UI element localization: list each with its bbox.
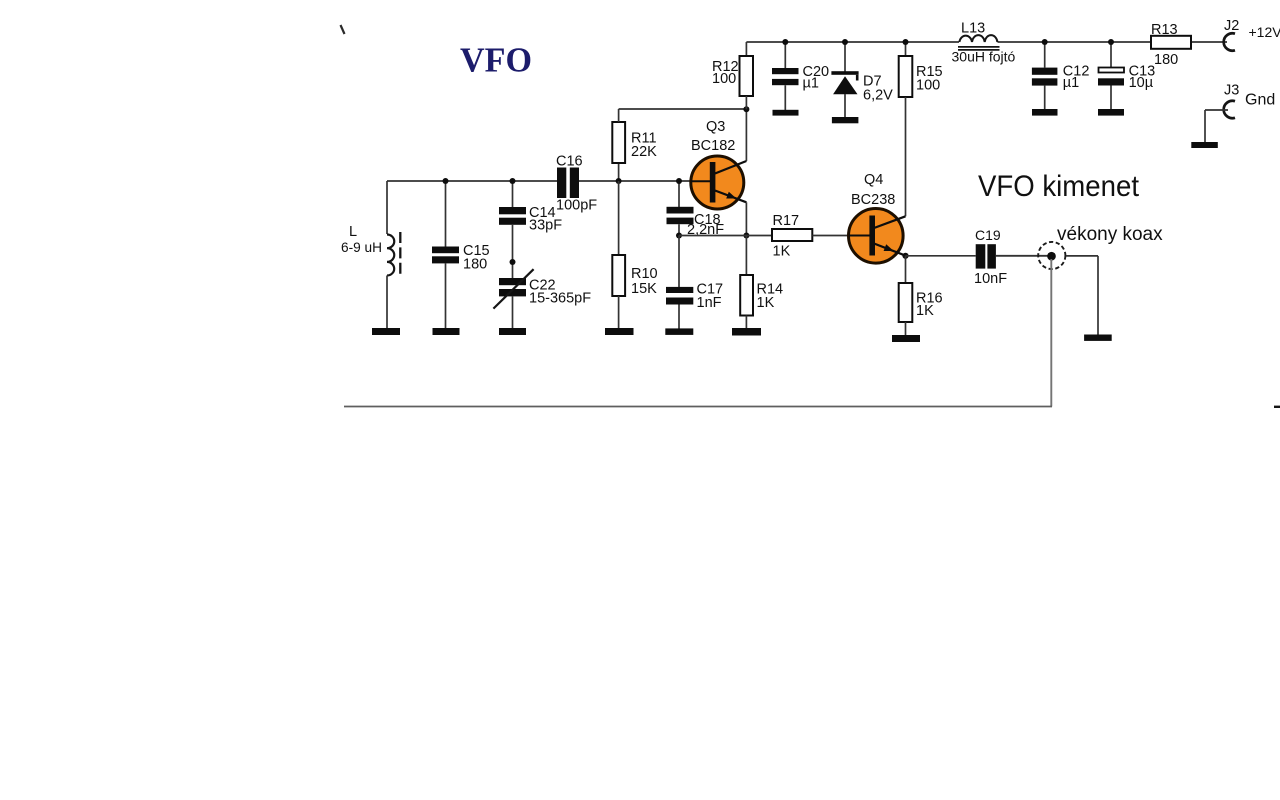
transistor Q3 [691, 156, 747, 209]
inductor L [387, 181, 400, 328]
wire Q3 emitter down [745, 202, 747, 235]
svg-text:Q4: Q4 [864, 172, 883, 188]
wire feedback bottom run [344, 406, 1052, 408]
svg-text:15-365pF: 15-365pF [529, 291, 591, 307]
svg-text:BC182: BC182 [691, 138, 735, 154]
label J2 [1224, 18, 1239, 34]
label C20 [803, 64, 830, 92]
connector J3 [1205, 101, 1235, 142]
svg-text:10µ: 10µ [1129, 75, 1154, 91]
node dot C14/rail [510, 178, 516, 184]
ground L [372, 328, 400, 335]
svg-text:µ1: µ1 [803, 76, 819, 92]
wire R11 top to R12 bottom [619, 108, 747, 110]
node dot collector / R12 [743, 106, 749, 112]
node dot rail / C20 [782, 39, 788, 45]
ground R16 [892, 335, 920, 342]
svg-text:R10: R10 [631, 266, 658, 282]
ground D7 [832, 117, 859, 123]
ground R14 [732, 328, 761, 336]
ground C20 [773, 110, 799, 116]
label C17 [697, 282, 724, 312]
svg-text:C16: C16 [556, 154, 583, 170]
svg-text:33pF: 33pF [529, 218, 562, 234]
label R15 [916, 64, 943, 94]
resistor R12 [740, 42, 754, 109]
label C16 [556, 154, 597, 214]
resistor R17 [772, 229, 849, 241]
svg-text:VFO: VFO [460, 40, 532, 79]
label J3 [1224, 83, 1239, 99]
node dot rail / R15 [903, 39, 909, 45]
label C14 [529, 205, 562, 234]
label R14 [757, 282, 784, 312]
label R12 [712, 59, 739, 87]
ground C22 [499, 328, 526, 335]
label C22 [529, 278, 591, 307]
label +12V [1249, 24, 1280, 40]
svg-text:L13: L13 [961, 21, 985, 37]
svg-text:1K: 1K [916, 303, 934, 319]
electrolytic capacitor C13 [1098, 42, 1124, 109]
svg-text:1nF: 1nF [697, 295, 722, 311]
svg-text:30uH fojtó: 30uH fojtó [952, 49, 1016, 65]
svg-text:J3: J3 [1224, 83, 1239, 99]
svg-text:100: 100 [916, 78, 940, 94]
ground R10 [605, 328, 634, 335]
node dot rail / D7 [842, 39, 848, 45]
ground J3 [1191, 142, 1218, 148]
svg-text:1K: 1K [773, 244, 791, 260]
svg-text:R13: R13 [1151, 22, 1178, 38]
ground C13 [1098, 109, 1124, 116]
capacitor C12 [1032, 42, 1058, 109]
label R16 [916, 291, 943, 320]
svg-text:Gnd: Gnd [1245, 92, 1275, 109]
transistor Q4 [849, 209, 906, 264]
node dot Q4 emitter [902, 253, 908, 259]
svg-text:VFO kimenet: VFO kimenet [978, 170, 1140, 203]
svg-text:1K: 1K [757, 295, 775, 311]
node dot emitter row / C18 [676, 233, 682, 239]
coax connector [1038, 242, 1098, 335]
label Q3 [691, 119, 735, 154]
svg-text:µ1: µ1 [1063, 75, 1079, 91]
resistor R13 [1151, 36, 1191, 49]
resistor R15 [899, 42, 913, 216]
svg-text:180: 180 [1154, 52, 1178, 68]
resistor R11 [612, 109, 625, 181]
label C12 [1063, 64, 1090, 92]
label L13 [952, 21, 1016, 65]
wire stub right edge [1274, 406, 1280, 408]
svg-text:10nF: 10nF [974, 271, 1007, 287]
svg-text:100: 100 [712, 71, 736, 87]
wire +12V top rail [746, 41, 1227, 43]
capacitor C17 [666, 236, 693, 330]
node dot rail / C13 [1108, 39, 1114, 45]
svg-text:C19: C19 [975, 227, 1001, 243]
label R17 [773, 213, 800, 260]
connector J2 [1224, 33, 1235, 50]
stray crop mark top-left [341, 25, 345, 34]
node dot C15/rail [443, 178, 449, 184]
resistor R10 [612, 181, 625, 328]
node dot base rail / R11 [616, 178, 622, 184]
capacitor C16 [557, 168, 579, 199]
capacitor C20 [772, 42, 799, 110]
title VFO [460, 40, 532, 79]
label Gnd [1245, 92, 1275, 109]
svg-text:+12V: +12V [1249, 24, 1280, 40]
label R13 [1151, 22, 1178, 68]
label L [341, 224, 382, 255]
node dot emitter / R14 [743, 233, 749, 239]
capacitor C14 [499, 181, 526, 278]
node dot C14/C22 [510, 259, 516, 265]
wire emitter row [679, 235, 772, 237]
wire feedback from coax down [1050, 259, 1052, 407]
label vekony koax [1057, 224, 1163, 245]
ground coax shield [1084, 335, 1112, 341]
label D7 [863, 74, 893, 104]
resistor R16 [899, 256, 913, 335]
node dot rail / C12 [1042, 39, 1048, 45]
svg-text:Q3: Q3 [706, 119, 725, 135]
wire base rail y181 [387, 180, 557, 182]
ground C15 [433, 328, 460, 335]
label C18 [687, 212, 724, 238]
svg-text:vékony koax: vékony koax [1057, 224, 1163, 245]
svg-text:100pF: 100pF [556, 198, 597, 214]
svg-text:J2: J2 [1224, 18, 1239, 34]
inductor L13 [958, 35, 1000, 50]
label C19 [974, 227, 1007, 287]
resistor R14 [740, 236, 753, 329]
node dot base / C18 [676, 178, 682, 184]
svg-text:6,2V: 6,2V [863, 88, 893, 104]
capacitor C18 [667, 181, 694, 236]
svg-text:BC238: BC238 [851, 192, 895, 208]
svg-text:R17: R17 [773, 213, 800, 229]
wire base rail right of C16 [579, 180, 711, 182]
label C13 [1129, 64, 1156, 92]
capacitor C19 [906, 244, 1052, 268]
label R10 [631, 266, 658, 297]
ground C12 [1032, 109, 1058, 116]
svg-text:6-9 uH: 6-9 uH [341, 239, 382, 255]
variable capacitor C22 [493, 269, 533, 328]
svg-text:180: 180 [463, 257, 487, 273]
zener diode D7 [831, 42, 858, 117]
capacitor C15 [432, 181, 459, 328]
label VFO kimenet [978, 170, 1140, 203]
svg-text:22K: 22K [631, 144, 657, 160]
wire Q3 collector up [745, 109, 747, 161]
label R11 [631, 131, 657, 161]
label Q4 [851, 172, 895, 208]
ground C17 [665, 328, 693, 335]
svg-text:L: L [349, 224, 357, 240]
svg-text:15K: 15K [631, 281, 657, 297]
label C15 [463, 243, 490, 273]
